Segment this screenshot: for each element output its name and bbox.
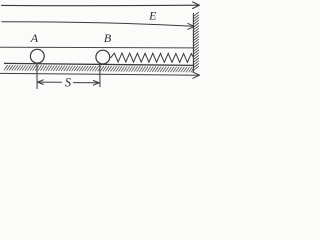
ground hatching <box>4 65 194 72</box>
svg-text:S: S <box>65 76 72 90</box>
baseline arrow <box>0 72 200 78</box>
dimension tick right <box>99 64 101 87</box>
svg-text:A: A <box>30 31 39 45</box>
ground <box>4 63 194 65</box>
wall hatching <box>194 12 199 70</box>
spring <box>110 53 194 62</box>
svg-text:E: E <box>148 9 157 23</box>
ball B <box>96 50 110 64</box>
upper boundary line with arrowhead at wall <box>2 22 194 30</box>
dimension arrow left <box>38 80 62 85</box>
field arrow line E <box>2 2 200 9</box>
wall <box>192 13 194 73</box>
dimension tick left <box>36 63 38 89</box>
svg-text:B: B <box>104 31 112 45</box>
dimension arrow right <box>74 81 100 86</box>
ball A <box>30 49 44 63</box>
line above balls <box>0 46 193 49</box>
